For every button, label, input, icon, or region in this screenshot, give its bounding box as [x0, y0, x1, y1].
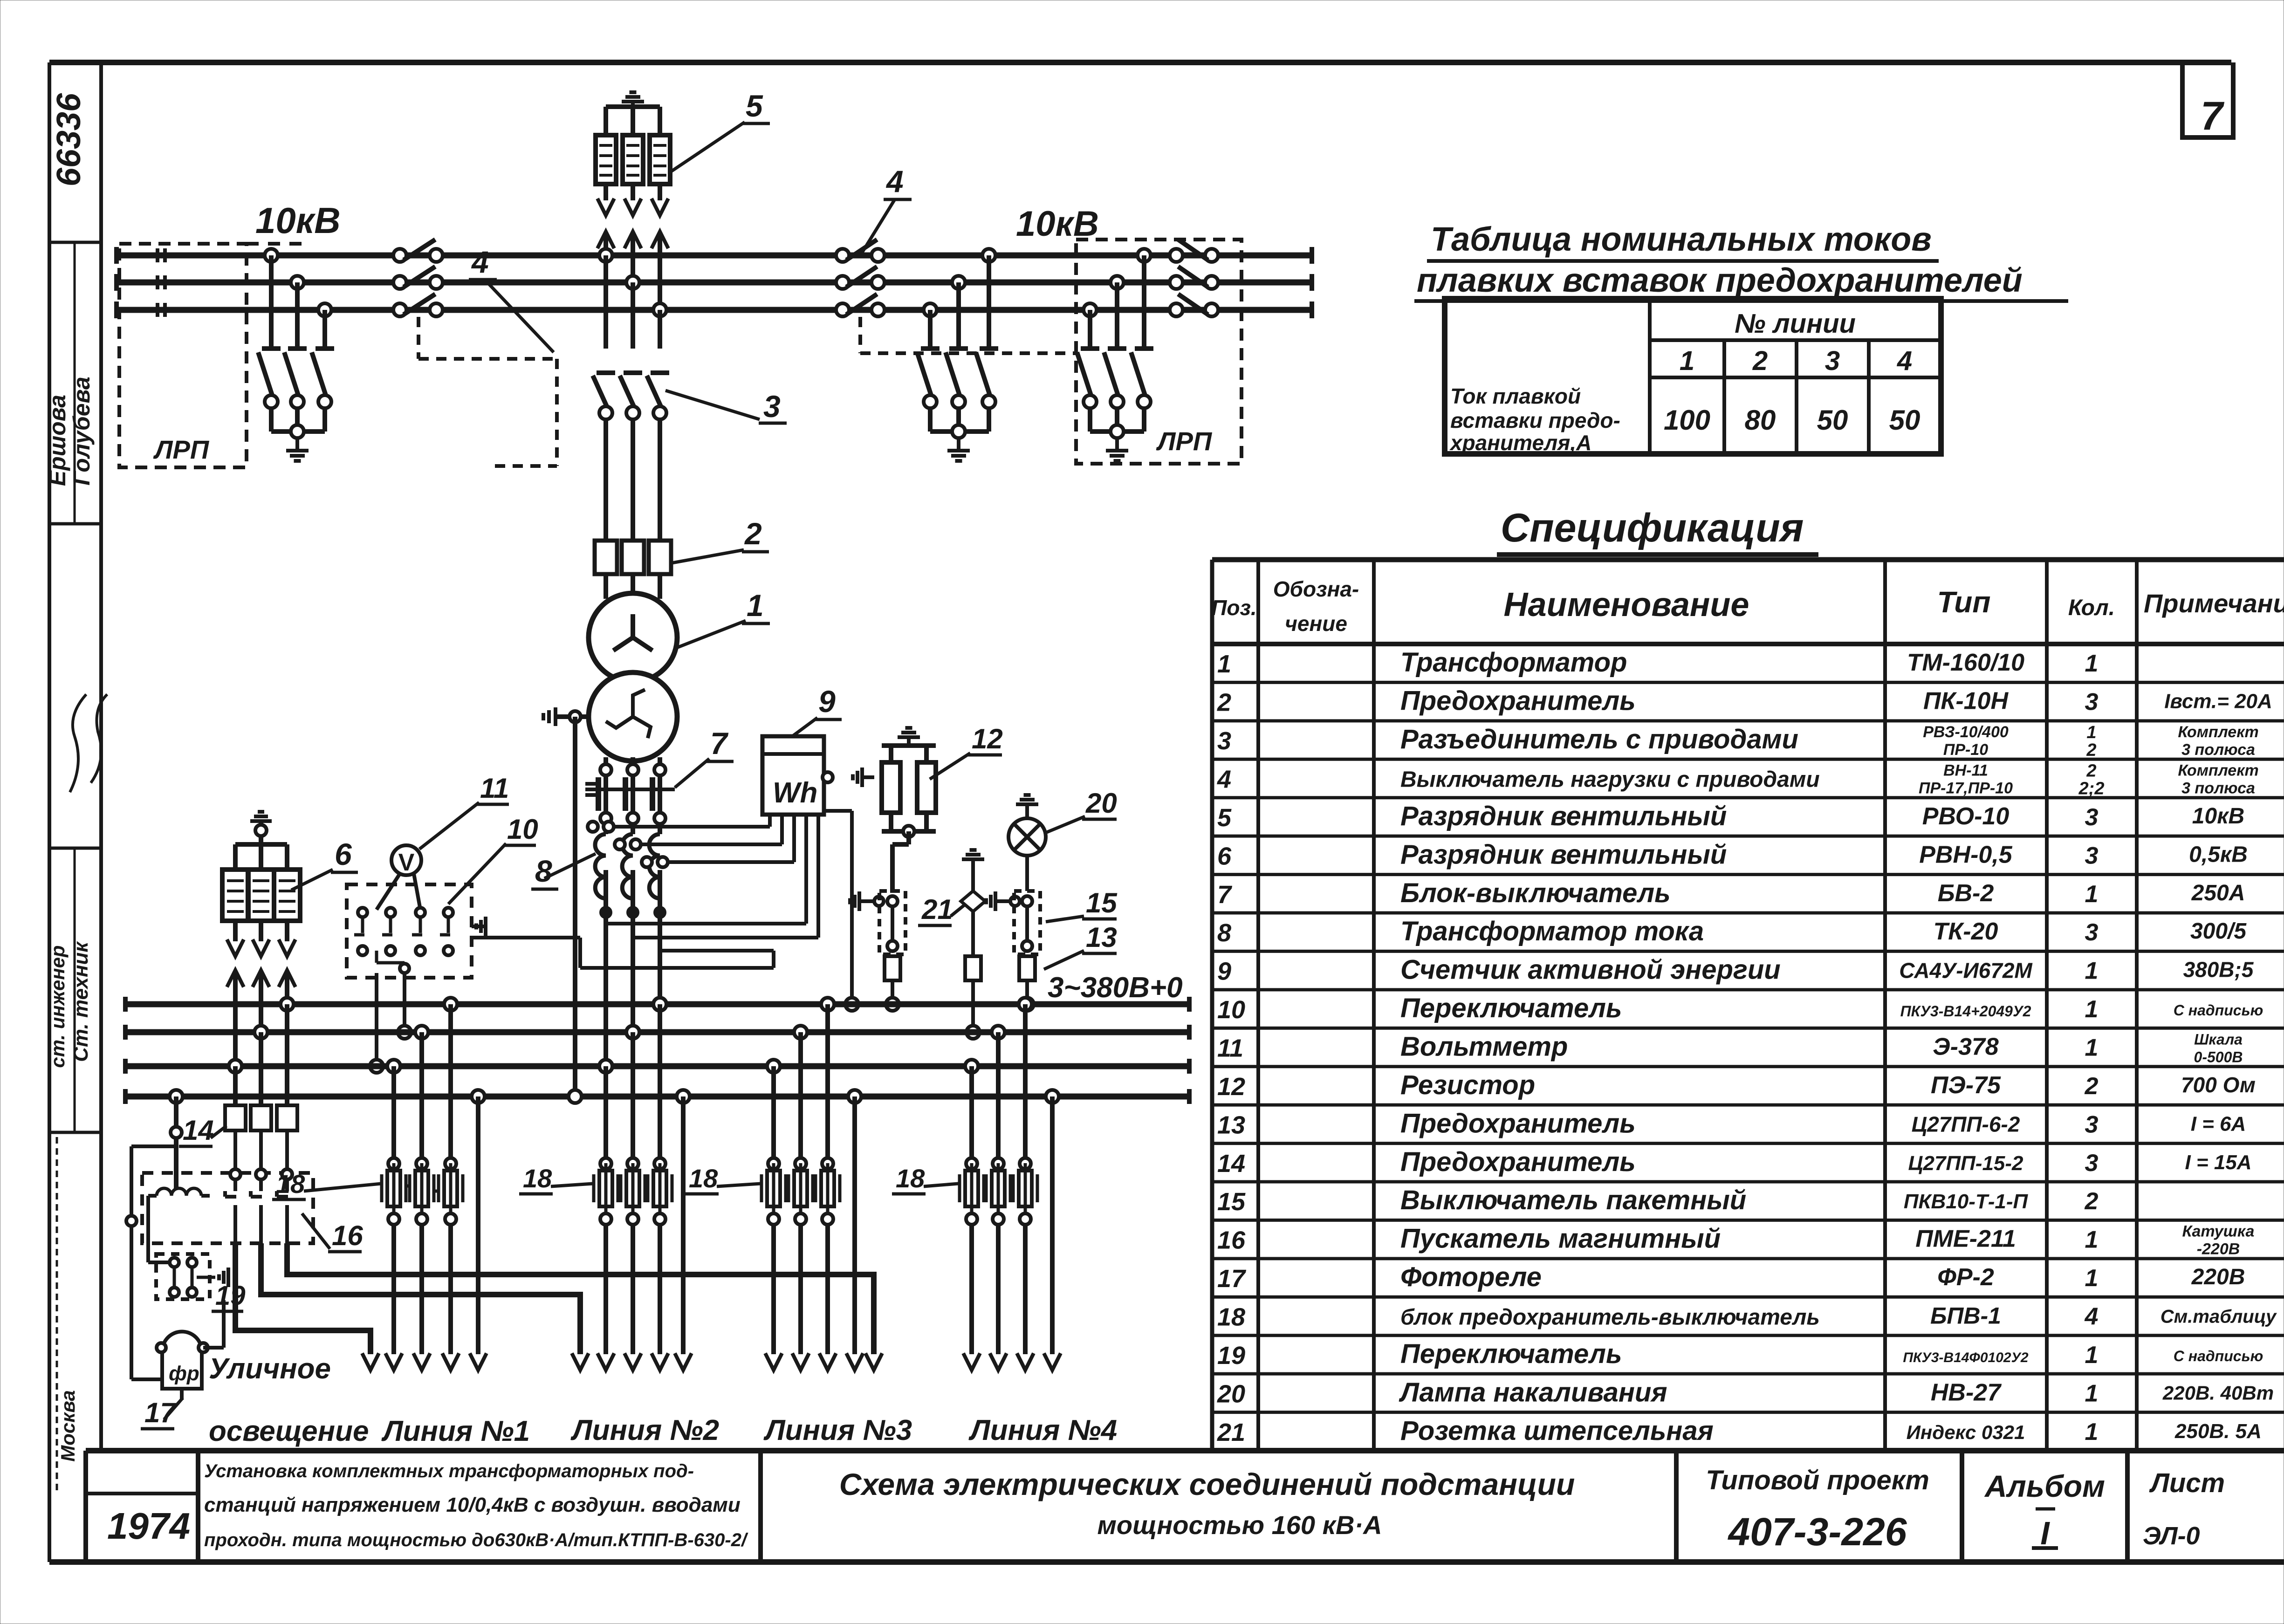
wires buses to switch 3 [606, 255, 660, 349]
svg-text:Голубева: Голубева [69, 377, 95, 486]
svg-text:250А: 250А [2191, 881, 2245, 905]
junction switch10 wire on bus 2 [398, 1026, 411, 1039]
svg-text:Линия №1: Линия №1 [381, 1415, 530, 1447]
wires transformer to block switch 7 [600, 757, 665, 775]
svg-text:Розетка штепсельная: Розетка штепсельная [1400, 1416, 1714, 1446]
svg-text:Пускатель магнитный: Пускатель магнитный [1400, 1224, 1721, 1254]
svg-text:11: 11 [480, 773, 509, 804]
svg-text:Предохранитель: Предохранитель [1400, 686, 1636, 716]
svg-text:Комплект: Комплект [2178, 762, 2258, 780]
spec row 19 Переключатель [1217, 1339, 2263, 1370]
label 3 [665, 389, 787, 424]
spec row 14 Предохранитель [1217, 1147, 2252, 1178]
wires switch 3 to fuses 2 [606, 419, 660, 541]
svg-text:19: 19 [215, 1281, 246, 1311]
junction on bus 1 [1021, 998, 1034, 1011]
svg-text:21: 21 [1217, 1418, 1245, 1446]
svg-text:Разрядник вентильный: Разрядник вентильный [1400, 839, 1727, 870]
spec row 18 блок предохранитель-выключатель [1217, 1303, 2277, 1331]
street feeder phase C [235, 1243, 379, 1370]
svg-text:Линия №2: Линия №2 [570, 1414, 719, 1446]
svg-text:ст. инженер: ст. инженер [47, 945, 69, 1068]
street feeder phase B [261, 1243, 589, 1370]
svg-text:9: 9 [818, 684, 836, 719]
svg-text:хранителя,А: хранителя,А [1449, 431, 1591, 455]
svg-text:2: 2 [2086, 740, 2096, 760]
svg-text:220В. 40Вт: 220В. 40Вт [2162, 1382, 2274, 1404]
svg-text:ВН-11: ВН-11 [1943, 762, 1988, 780]
spec row 8 Трансформатор тока [1217, 916, 2247, 947]
svg-text:Разрядник вентильный: Разрядник вентильный [1400, 801, 1727, 831]
svg-text:С надписью: С надписью [2174, 1002, 2263, 1019]
svg-text:17: 17 [1217, 1265, 1247, 1293]
wire to bus [891, 980, 894, 1004]
svg-text:300/5: 300/5 [2190, 919, 2247, 944]
svg-text:13: 13 [1217, 1111, 1245, 1139]
load-break switch stack group C with ground [1077, 249, 1153, 461]
svg-text:1: 1 [2085, 1227, 2099, 1254]
svg-text:80: 80 [1745, 404, 1776, 436]
arrester group 5 top bar [606, 104, 660, 109]
fuse 14 phase B [251, 1105, 271, 1131]
svg-text:50: 50 [1817, 404, 1848, 436]
svg-text:700 Ом: 700 Ом [2181, 1073, 2256, 1097]
svg-text:Тип: Тип [1937, 585, 1991, 619]
svg-text:С надписью: С надписью [2174, 1348, 2263, 1364]
load-break switch stack group A with ground [258, 249, 334, 461]
fuse table title [1414, 221, 2068, 301]
starter coil [157, 1188, 201, 1196]
junction transformer neutral on 380 bus [569, 1090, 582, 1103]
spec row 21 Розетка штепсельная [1217, 1416, 2262, 1446]
svg-text:Установка комплектных трансфор: Установка комплектных трансформаторных п… [204, 1461, 694, 1481]
svg-text:3 полюса: 3 полюса [2181, 741, 2255, 759]
svg-text:2: 2 [2086, 761, 2096, 781]
meter secondary harness [472, 811, 852, 1004]
svg-text:I: I [2040, 1515, 2050, 1551]
svg-text:ПКУ3-В14+2049У2: ПКУ3-В14+2049У2 [1900, 1003, 2031, 1020]
svg-text:Переключатель: Переключатель [1400, 1339, 1622, 1369]
arrester 5 phase B [623, 108, 643, 215]
svg-text:12: 12 [972, 723, 1003, 754]
label 4 right [861, 164, 912, 254]
line group 3 columns and block 18 [761, 998, 863, 1370]
label 5 [671, 89, 770, 171]
svg-text:11: 11 [1217, 1035, 1243, 1062]
svg-text:1: 1 [1217, 650, 1231, 678]
svg-text:Москва: Москва [57, 1390, 79, 1461]
specification table grid [1212, 560, 2284, 1451]
label 13 [1044, 922, 1117, 969]
svg-text:Уличное: Уличное [209, 1353, 331, 1385]
magnetic starter 16 dashed box [142, 1173, 313, 1243]
svg-text:18: 18 [689, 1164, 718, 1193]
junction on bus 1 [886, 998, 899, 1011]
junction transformer column C on 380 bus [653, 998, 666, 1011]
title block project description [204, 1461, 748, 1550]
svg-text:5: 5 [746, 89, 763, 123]
spec row 5 Разрядник вентильный [1217, 801, 2244, 832]
svg-text:Ц27ПП-15-2: Ц27ПП-15-2 [1908, 1152, 2023, 1175]
svg-text:См.таблицу: См.таблицу [2161, 1307, 2277, 1327]
svg-text:РВО-10: РВО-10 [1922, 803, 2010, 830]
svg-text:Трансформатор тока: Трансформатор тока [1400, 916, 1704, 946]
arrester 6 phase A [274, 844, 300, 956]
junction meter voltage tap on bus 1 [845, 998, 858, 1011]
transformer 1 (two windings) [589, 593, 677, 761]
svg-text:15: 15 [1086, 887, 1118, 918]
svg-text:3: 3 [763, 389, 781, 424]
label 18 line2 [519, 1164, 593, 1194]
svg-text:Предохранитель: Предохранитель [1400, 1147, 1636, 1177]
svg-text:станций напряжением 10/0,4кВ с: станций напряжением 10/0,4кВ с воздушн. … [204, 1494, 741, 1516]
label 8 [531, 854, 596, 889]
fuse 13 left [885, 956, 900, 980]
transformer neutral wire to bus 4 [573, 717, 577, 1096]
label 10kV left [247, 200, 341, 244]
svg-text:1: 1 [2085, 650, 2099, 677]
svg-text:Спецификация: Спецификация [1501, 506, 1804, 550]
svg-text:16: 16 [332, 1220, 363, 1251]
svg-text:3: 3 [2085, 919, 2099, 946]
svg-text:Фотореле: Фотореле [1400, 1262, 1542, 1292]
label 9 [792, 684, 842, 736]
label 1 [677, 588, 770, 648]
fuse ratings table [1445, 299, 1941, 455]
fuse 13 right [1019, 956, 1035, 980]
junction transformer column B on 380 bus [626, 1026, 639, 1039]
svg-text:8: 8 [535, 854, 552, 888]
svg-text:V: V [398, 849, 415, 876]
svg-text:Счетчик активной энергии: Счетчик активной энергии [1400, 955, 1781, 985]
svg-text:плавких вставок предохранителе: плавких вставок предохранителей [1417, 262, 2023, 299]
specification title [1497, 506, 1818, 555]
fuse 14 phase A [277, 1105, 297, 1131]
spark gap arrows from 380 buses [227, 970, 295, 1066]
starter 16 main contacts [225, 1131, 292, 1243]
svg-text:18: 18 [1217, 1303, 1245, 1331]
starter coil leads [148, 1188, 210, 1221]
wires CT to 380V buses [606, 870, 660, 1066]
svg-text:Наименование: Наименование [1504, 586, 1749, 624]
spec row 12 Резистор [1217, 1070, 2256, 1101]
spec row 9 Счетчик активной энергии [1217, 955, 2254, 986]
svg-text:6: 6 [335, 837, 352, 871]
svg-text:3: 3 [2085, 804, 2099, 831]
svg-text:16: 16 [1217, 1227, 1246, 1254]
label 10 [448, 814, 538, 904]
margin small print stripe [56, 1137, 58, 1491]
svg-text:1: 1 [2085, 1342, 2099, 1369]
svg-text:8: 8 [1217, 919, 1231, 947]
disconnector group 4 instance 3 [1170, 240, 1218, 316]
label 6 [291, 837, 358, 890]
socket 21 with ground [961, 850, 985, 956]
svg-text:ФР-2: ФР-2 [1937, 1264, 1994, 1291]
svg-text:Выключатель нагрузки с привода: Выключатель нагрузки с приводами [1400, 767, 1820, 792]
svg-text:4: 4 [1217, 766, 1231, 794]
svg-text:18: 18 [523, 1164, 552, 1193]
svg-text:Вольтметр: Вольтметр [1400, 1032, 1568, 1062]
svg-text:мощностью 160 кВ·А: мощностью 160 кВ·А [1097, 1510, 1382, 1540]
junction transformer column C on bus [653, 303, 666, 316]
svg-text:21: 21 [921, 894, 953, 925]
title block drawing name [839, 1467, 1575, 1540]
svg-text:ПК-10Н: ПК-10Н [1923, 688, 2009, 715]
switch 10 wires to buses [377, 973, 405, 1066]
svg-text:10кВ: 10кВ [255, 200, 341, 241]
svg-text:Переключатель: Переключатель [1400, 993, 1622, 1023]
10kV bus phase C [117, 302, 1312, 318]
svg-text:Кол.: Кол. [2068, 596, 2115, 620]
border frame top [49, 60, 2231, 65]
svg-text:Блок-выключатель: Блок-выключатель [1400, 878, 1671, 908]
label 17 [141, 1397, 183, 1429]
svg-text:4: 4 [471, 245, 489, 279]
svg-text:18: 18 [276, 1169, 305, 1199]
svg-text:I = 6А: I = 6А [2191, 1112, 2246, 1135]
svg-text:2: 2 [2085, 1073, 2099, 1100]
label 7 [675, 726, 734, 788]
svg-text:ПР-10: ПР-10 [1943, 741, 1988, 759]
svg-text:3: 3 [1217, 727, 1231, 755]
svg-text:ПЭ-75: ПЭ-75 [1931, 1072, 2001, 1099]
svg-text:10: 10 [507, 814, 538, 845]
svg-text:чение: чение [1285, 611, 1347, 636]
spec row 11 Вольтметр [1217, 1031, 2243, 1066]
sheet number box [2182, 62, 2233, 138]
disconnector group 4 instance 1 (РВЗ) [393, 240, 557, 466]
svg-text:3: 3 [1825, 346, 1840, 376]
svg-text:4: 4 [2085, 1303, 2099, 1330]
svg-text:15: 15 [1217, 1188, 1246, 1216]
svg-text:66336: 66336 [50, 93, 88, 186]
svg-text:12: 12 [1217, 1073, 1245, 1101]
svg-text:Альбом: Альбом [1984, 1469, 2105, 1503]
svg-text:4: 4 [1897, 346, 1912, 376]
svg-text:10: 10 [1217, 996, 1245, 1024]
svg-text:Ц27ПП-6-2: Ц27ПП-6-2 [1912, 1112, 2020, 1136]
label 18 line1 [272, 1169, 381, 1199]
svg-text:Ток плавкой: Ток плавкой [1450, 384, 1581, 408]
border frame inner-left [99, 62, 103, 1448]
switch 19 ground [226, 1275, 230, 1279]
10kV bus phase B [117, 274, 1312, 291]
spec row 13 Предохранитель [1217, 1108, 2246, 1139]
spec row 6 Разрядник вентильный [1217, 839, 2248, 870]
svg-text:-220В: -220В [2197, 1240, 2240, 1258]
svg-text:Э-378: Э-378 [1933, 1034, 1999, 1061]
street lighting phase taps [229, 998, 294, 1105]
spec row 1 Трансформатор [1217, 647, 2098, 678]
svg-text:2: 2 [2085, 1188, 2099, 1215]
svg-text:Разъединитель с приводами: Разъединитель с приводами [1400, 724, 1798, 754]
svg-text:Линия №3: Линия №3 [763, 1414, 912, 1446]
svg-text:1: 1 [2085, 881, 2099, 908]
ground for arresters 5 [631, 102, 635, 112]
svg-text:6: 6 [1217, 842, 1232, 870]
svg-text:Предохранитель: Предохранитель [1400, 1108, 1636, 1138]
label 20 [1047, 788, 1117, 832]
wire to bus [971, 980, 975, 1032]
fuse 2 phase B [622, 541, 644, 574]
spec row 4 Выключатель нагрузки с приводами [1217, 761, 2259, 799]
svg-text:1: 1 [2085, 1380, 2099, 1407]
junction transformer column B on bus [626, 276, 639, 289]
line group 1 columns and block 18 [382, 998, 487, 1370]
arrester 6 phase B [248, 844, 274, 956]
line group 2 columns and block 18 [594, 998, 692, 1370]
svg-text:Обозна-: Обозна- [1273, 577, 1359, 601]
svg-text:Примечани: Примечани [2144, 589, 2284, 618]
svg-text:50: 50 [1889, 404, 1920, 436]
svg-text:РВН-0,5: РВН-0,5 [1919, 841, 2012, 868]
svg-text:1: 1 [2085, 996, 2099, 1023]
svg-text:0-500В: 0-500В [2194, 1049, 2243, 1066]
svg-text:вставки предо-: вставки предо- [1450, 408, 1620, 432]
arrester 5 phase A [596, 107, 616, 215]
svg-text:ПКУ3-В14Ф0102У2: ПКУ3-В14Ф0102У2 [1903, 1350, 2029, 1365]
svg-text:14: 14 [1217, 1150, 1245, 1178]
label 2 [672, 516, 769, 563]
line group 4 columns and block 18 [960, 998, 1061, 1370]
label 15 [1046, 887, 1118, 922]
svg-text:20: 20 [1217, 1380, 1245, 1408]
svg-text:ЛРП: ЛРП [153, 435, 210, 464]
svg-text:СА4У-И672М: СА4У-И672М [1899, 959, 2033, 983]
svg-text:2: 2 [1217, 689, 1231, 717]
svg-text:7: 7 [710, 726, 729, 761]
svg-text:Лампа накаливания: Лампа накаливания [1399, 1377, 1667, 1407]
label 11 [419, 773, 509, 849]
margin signatures [70, 694, 107, 792]
svg-text:220В: 220В [2191, 1265, 2245, 1289]
spec row 10 Переключатель [1217, 993, 2263, 1024]
disconnector group 4 instance 2 [836, 240, 1076, 353]
svg-text:7: 7 [1217, 881, 1233, 909]
packet switch 15 left with ground [850, 891, 905, 956]
selector switch 10 dashed box [347, 884, 472, 978]
svg-text:7: 7 [2201, 94, 2225, 138]
svg-text:ПМЕ-211: ПМЕ-211 [1915, 1226, 2016, 1253]
label street lighting [209, 1353, 369, 1447]
svg-text:1: 1 [2085, 958, 2099, 985]
label 18 line4 [892, 1164, 958, 1194]
svg-text:18: 18 [896, 1164, 925, 1193]
svg-text:освещение: освещение [209, 1415, 369, 1447]
svg-text:Ст. техник: Ст. техник [69, 941, 92, 1062]
svg-text:Трансформатор: Трансформатор [1400, 647, 1627, 678]
svg-text:Выключатель пакетный: Выключатель пакетный [1400, 1185, 1746, 1215]
svg-text:ПКВ10-Т-1-П: ПКВ10-Т-1-П [1904, 1190, 2029, 1213]
svg-text:5: 5 [1217, 804, 1232, 832]
svg-text:ТМ-160/10: ТМ-160/10 [1907, 649, 2024, 676]
current transformers 8 [595, 813, 665, 918]
junction on bus 2 [967, 1026, 980, 1039]
svg-text:блок предохранитель-выключател: блок предохранитель-выключатель [1400, 1305, 1820, 1330]
label 18 line3 [685, 1164, 761, 1194]
transformer neutral ground tap [543, 707, 589, 726]
svg-text:БВ-2: БВ-2 [1938, 880, 1994, 907]
svg-text:Типовой проект: Типовой проект [1706, 1465, 1929, 1495]
svg-text:Поз.: Поз. [1211, 596, 1256, 620]
svg-text:Линия №4: Линия №4 [968, 1414, 1117, 1446]
title block typical project number [1706, 1465, 1929, 1554]
title block album [1984, 1469, 2105, 1551]
spark gap arrows from bus [597, 232, 668, 310]
fuse 13 middle [965, 956, 981, 980]
specification table header [1211, 577, 2284, 636]
svg-text:1: 1 [2085, 1265, 2099, 1292]
svg-text:3: 3 [2085, 842, 2099, 869]
svg-text:проходн. типа мощностью до630к: проходн. типа мощностью до630кВ·А/тип.КТ… [204, 1530, 748, 1550]
arrester 6 phase C [222, 844, 248, 956]
svg-text:3~380В+0: 3~380В+0 [1048, 972, 1183, 1004]
svg-text:Шкала: Шкала [2194, 1031, 2243, 1048]
title block frame [49, 1451, 2284, 1562]
380V bus neutral [125, 1089, 1189, 1104]
svg-text:0,5кВ: 0,5кВ [2189, 842, 2248, 867]
svg-text:I = 15А: I = 15А [2185, 1151, 2251, 1174]
svg-text:19: 19 [1217, 1342, 1245, 1370]
svg-text:НВ-27: НВ-27 [1931, 1379, 2002, 1406]
svg-text:2: 2 [1752, 346, 1768, 376]
energy meter 9 (Wh) [762, 736, 874, 815]
svg-text:Iвст.= 20А: Iвст.= 20А [2164, 690, 2272, 713]
svg-text:Таблица номинальных токов: Таблица номинальных токов [1431, 221, 1932, 258]
svg-text:10кВ: 10кВ [2192, 804, 2244, 829]
svg-text:2;2: 2;2 [2078, 779, 2105, 799]
svg-text:Wh: Wh [773, 777, 817, 809]
junction transformer column A on 380 bus [599, 1060, 612, 1073]
spec row 3 Разъединитель с приводами [1217, 723, 2259, 760]
junction transformer column A on bus [599, 249, 612, 262]
svg-text:380В;5: 380В;5 [2183, 958, 2254, 982]
380V bus phase B [125, 1025, 1189, 1040]
selector switch ground [484, 925, 487, 928]
svg-text:ЭЛ-0: ЭЛ-0 [2143, 1522, 2200, 1550]
svg-text:1: 1 [747, 588, 764, 623]
label 21 [918, 894, 966, 925]
LRP dashed box right [1076, 240, 1241, 464]
svg-text:9: 9 [1217, 958, 1231, 986]
junction switch10 wire on bus 3 [370, 1060, 383, 1073]
fuse 14 phase C [225, 1105, 246, 1131]
svg-text:фр: фр [169, 1362, 199, 1385]
svg-text:407-3-226: 407-3-226 [1728, 1510, 1907, 1554]
control switch 19 contacts [148, 1221, 197, 1297]
svg-text:3 полюса: 3 полюса [2181, 780, 2255, 797]
packet switch 15 right with ground [986, 891, 1040, 956]
spec row 20 Лампа накаливания [1217, 1377, 2274, 1408]
svg-text:2: 2 [744, 516, 762, 551]
control switch 19 dashed box [156, 1254, 210, 1299]
svg-text:Комплект: Комплект [2178, 723, 2258, 741]
svg-text:13: 13 [1086, 922, 1117, 953]
380V bus phase A [125, 997, 1189, 1012]
arrester 5 phase C [650, 107, 670, 215]
10kV bus phase A [117, 247, 1312, 264]
label 4 left [469, 245, 554, 352]
street light control loop wire [126, 1146, 176, 1379]
svg-text:20: 20 [1085, 788, 1117, 819]
fuse 2 phase A [595, 541, 617, 574]
svg-text:РВЗ-10/400: РВЗ-10/400 [1923, 723, 2009, 741]
svg-text:3: 3 [2085, 1150, 2099, 1177]
street feeder phase A [287, 1243, 882, 1370]
title block sheet [2143, 1468, 2225, 1550]
svg-text:Резистор: Резистор [1400, 1070, 1535, 1100]
